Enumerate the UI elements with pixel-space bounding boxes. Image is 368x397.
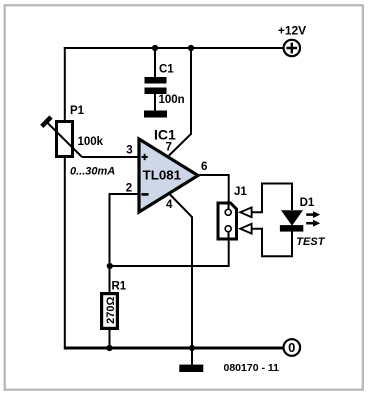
- LED light arrow 1: [306, 211, 320, 218]
- LED light arrow 2: [306, 220, 320, 227]
- wire wiper to pin 3: [82, 156, 139, 158]
- svg-text:J1: J1: [234, 186, 247, 198]
- wire ground stub: [191, 348, 193, 365]
- svg-text:100n: 100n: [159, 94, 185, 106]
- connector pin arrow top: [240, 207, 251, 217]
- connector pin arrow bottom: [240, 224, 251, 234]
- wire C1 top lead: [154, 48, 156, 78]
- terminal 0: [284, 339, 301, 356]
- potentiometer P1: [42, 117, 82, 157]
- wire arrow top to LED loop: [252, 184, 292, 213]
- terminal +12V: [284, 40, 300, 56]
- svg-text:080170 - 11: 080170 - 11: [224, 362, 280, 374]
- op-amp IC1 TL081: [139, 139, 198, 212]
- svg-text:C1: C1: [159, 64, 174, 76]
- connector J1: [218, 202, 237, 241]
- svg-text:2: 2: [126, 182, 132, 194]
- svg-text:+12V: +12V: [278, 24, 306, 38]
- ground (C1): [144, 111, 167, 118]
- wire R1 top lead: [109, 266, 111, 294]
- node IC1 supply junction: [188, 45, 194, 51]
- wire output pin 6 to J1: [198, 175, 229, 209]
- wire arrow bottom to LED loop: [252, 229, 292, 257]
- svg-text:100k: 100k: [78, 136, 104, 148]
- ground: [179, 365, 203, 372]
- node C1 top junction: [152, 45, 158, 51]
- capacitor C1: [145, 77, 167, 111]
- LED D1: [280, 210, 303, 231]
- svg-text:0...30mA: 0...30mA: [70, 166, 115, 178]
- svg-text:6: 6: [201, 161, 207, 173]
- wire top rail +12V: [64, 47, 284, 49]
- node feedback junction: [107, 263, 113, 269]
- svg-text:4: 4: [166, 199, 173, 211]
- svg-text:P1: P1: [70, 105, 85, 117]
- svg-text:3: 3: [126, 144, 132, 156]
- svg-text:270Ω: 270Ω: [105, 297, 117, 324]
- svg-text:7: 7: [166, 141, 172, 153]
- svg-text:D1: D1: [300, 197, 315, 209]
- wire left vertical branch: [64, 47, 66, 348]
- wire feedback horizontal: [110, 232, 229, 266]
- resistor R1: [102, 294, 118, 329]
- wire pin 2 feedback: [110, 194, 140, 266]
- wire R1 bottom lead: [109, 328, 111, 348]
- svg-text:0: 0: [288, 340, 295, 355]
- svg-text:TL081: TL081: [143, 167, 182, 182]
- svg-text:TEST: TEST: [296, 236, 325, 248]
- wire IC1 supply vertical (pin 7): [169, 48, 191, 156]
- svg-text:IC1: IC1: [154, 127, 176, 143]
- node R1 bottom junction: [106, 345, 112, 351]
- svg-text:R1: R1: [112, 281, 127, 293]
- node ground junction: [189, 345, 195, 351]
- wire bottom rail 0V: [64, 347, 284, 350]
- wire pin 4 to ground rail: [169, 194, 192, 349]
